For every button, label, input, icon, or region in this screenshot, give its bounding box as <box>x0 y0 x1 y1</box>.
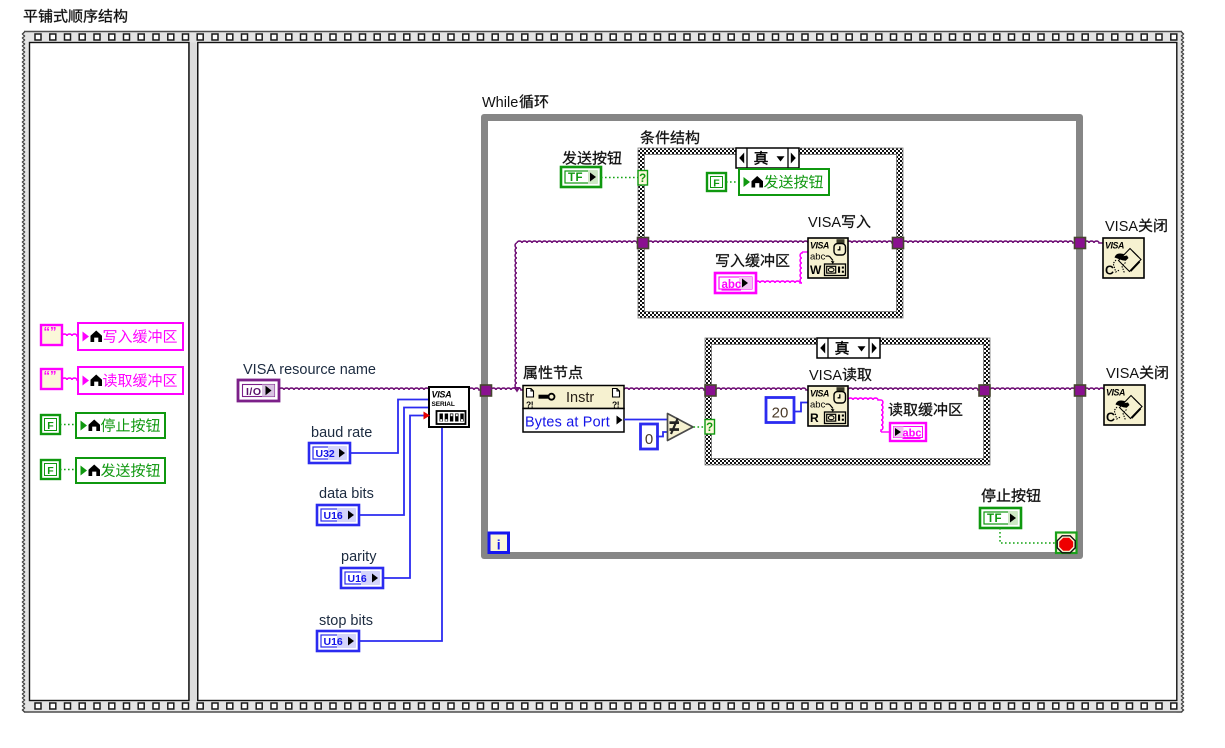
VISA Close node (upper) <box>1103 238 1144 278</box>
wire: baud rate (blue) <box>350 400 429 454</box>
label: VISA写入 <box>808 215 870 231</box>
iteration terminal i <box>489 533 509 553</box>
svg-text:?: ? <box>706 422 713 434</box>
wire: read buffer (pink wavy) VISA read → 读取缓冲区 <box>848 398 890 432</box>
label: 停止按钮 (terminal) <box>981 488 1040 502</box>
svg-text:I/O: I/O <box>246 386 262 398</box>
label: VISA关闭 (lower) <box>1106 365 1168 382</box>
wire: VISA resource branch up (wavy purple) + junction <box>514 241 639 392</box>
wire: VISA serial config to while loop (purple wavy) <box>469 388 481 390</box>
svg-text:R: R <box>810 411 819 425</box>
wire: 0 → not-equal (blue) <box>656 432 667 437</box>
loop condition terminal (stop sign) <box>1056 533 1077 554</box>
label: 属性节点 <box>523 365 582 379</box>
wire (pink string) <box>62 378 78 380</box>
svg-text:U32: U32 <box>316 448 335 460</box>
wire: Bytes at Port → not-equal (blue) <box>624 419 667 421</box>
wire: F → 发送按钮 local (dotted green) <box>726 181 739 183</box>
svg-text:abc: abc <box>810 252 826 263</box>
svg-text:“”: “” <box>44 324 57 339</box>
wire (boolean dotted) <box>60 424 76 426</box>
svg-text:U16: U16 <box>324 510 343 522</box>
wire: stop bits (blue) <box>359 427 442 641</box>
wire: parity (blue) <box>383 416 425 579</box>
svg-text:VISA: VISA <box>1105 241 1124 251</box>
svg-text:?!: ?! <box>526 400 534 410</box>
svg-text:VISA: VISA <box>1106 388 1125 398</box>
svg-text:VISA: VISA <box>809 368 842 384</box>
tunnel: case1 left (VISA) <box>638 238 649 249</box>
svg-text:data bits: data bits <box>319 486 374 502</box>
svg-text:SERIAL: SERIAL <box>432 401 455 408</box>
svg-text:U16: U16 <box>324 636 343 648</box>
local variable 停止按钮 <box>76 413 165 438</box>
VISA Configure Serial Port node <box>424 387 470 427</box>
label: 平铺式顺序结构 (flat sequence title) <box>24 9 127 23</box>
label: 读取缓冲区 <box>889 402 963 416</box>
label: 写入缓冲区 <box>716 253 789 267</box>
tunnel: while loop right upper (VISA) <box>1075 238 1086 249</box>
svg-text:W: W <box>810 263 822 277</box>
svg-text:Instr: Instr <box>566 390 594 406</box>
svg-text:F: F <box>47 420 54 432</box>
tunnel: case2 left (VISA) <box>705 385 716 396</box>
svg-text:0: 0 <box>645 431 653 448</box>
VISA Read node <box>808 386 848 426</box>
svg-text:?!: ?! <box>612 400 620 410</box>
wire: 停止按钮 → loop condition (dotted green) <box>1000 528 1056 543</box>
terminal TF 发送按钮 <box>561 167 601 187</box>
boolean constant F feeding 停止按钮 <box>41 415 60 434</box>
local variable 读取缓冲区 (indicator ▶abc) <box>890 423 926 441</box>
svg-text:stop bits: stop bits <box>319 613 373 629</box>
case structure 1 border <box>638 148 903 318</box>
svg-text:VISA: VISA <box>1106 366 1139 382</box>
label: data bits <box>319 486 374 502</box>
string constant (empty) feeding 写入缓冲区 <box>41 324 62 345</box>
wire: 20 → VISA read (blue) <box>794 403 808 412</box>
svg-text:VISA: VISA <box>808 215 841 231</box>
svg-text:U16: U16 <box>348 573 367 585</box>
case 2 selector ◀真▶ <box>817 338 880 358</box>
tunnel: while loop right lower (VISA) <box>1075 385 1086 396</box>
numeric constant 20 <box>766 398 794 423</box>
svg-text:TF: TF <box>568 172 583 184</box>
svg-text:20: 20 <box>772 405 789 422</box>
label: stop bits <box>319 613 373 629</box>
svg-text:abc: abc <box>903 428 922 440</box>
boolean constant F feeding 发送按钮 <box>41 460 60 479</box>
label: While循环 <box>482 94 548 111</box>
terminal abc 写入缓冲区 (string control) <box>715 273 756 293</box>
wire (pink string) <box>62 334 78 336</box>
svg-text:F: F <box>713 177 720 189</box>
local variable 写入缓冲区 <box>78 323 183 350</box>
svg-text:C: C <box>1105 264 1114 278</box>
terminal U32 baud rate <box>309 443 350 463</box>
svg-text:Bytes at Port: Bytes at Port <box>525 415 610 431</box>
svg-text:abc: abc <box>810 400 826 411</box>
tunnel: while loop left (VISA in) <box>481 385 492 396</box>
terminal U16 stop bits <box>317 631 359 651</box>
wire: VISA upper run through case 1 (wavy purple) <box>648 241 1103 243</box>
sequence frame 1 (left) <box>30 43 190 701</box>
svg-text:While: While <box>482 95 518 111</box>
terminal U16 parity <box>341 568 383 588</box>
I/O control (VISA resource name terminal) <box>238 380 279 401</box>
local variable 发送按钮 (in case 1) <box>739 169 829 195</box>
label: 条件结构 <box>641 130 700 144</box>
wire: VISA resource lower run (wavy purple) <box>491 388 1104 390</box>
frame divider <box>189 43 198 701</box>
case 2 selector terminal ? <box>705 420 715 435</box>
svg-text:TF: TF <box>987 513 1002 525</box>
tunnel: case2 right (VISA) <box>979 385 990 396</box>
svg-text:F: F <box>47 465 54 477</box>
label: baud rate <box>311 425 372 441</box>
VISA Close node (lower) <box>1104 385 1145 425</box>
wire: ≠ → case2 selector (dotted green) <box>694 426 706 428</box>
not-equal comparison node ≠ <box>668 414 694 441</box>
wire: 发送按钮 → case selector (dotted green) <box>601 177 638 179</box>
svg-text:i: i <box>497 537 501 553</box>
wire: write buffer (pink wavy) abc → VISA write <box>755 252 808 283</box>
boolean constant F (in case 1) <box>707 173 726 191</box>
terminal U16 data bits <box>317 505 359 525</box>
local variable 发送按钮 <box>76 458 165 483</box>
svg-text:VISA: VISA <box>810 241 829 251</box>
label: VISA关闭 (upper) <box>1105 218 1167 235</box>
case 1 selector ◀真▶ <box>736 148 799 168</box>
numeric constant 0 <box>641 424 658 449</box>
label: VISA resource name <box>243 362 376 378</box>
svg-text:VISA: VISA <box>810 389 829 399</box>
property node (Instr / Bytes at Port) <box>523 386 624 433</box>
svg-text:VISA: VISA <box>432 390 452 400</box>
svg-text:baud rate: baud rate <box>311 425 372 441</box>
While loop border <box>481 114 1083 559</box>
wire: VISA resource (purple wavy) I/O → VISA serial config <box>279 388 429 390</box>
label: parity <box>341 549 377 565</box>
VISA Write node <box>808 238 848 278</box>
svg-text:C: C <box>1106 411 1115 425</box>
terminal TF 停止按钮 <box>980 508 1021 528</box>
case selector terminal ? <box>638 171 648 186</box>
case structure 2 border <box>705 338 990 465</box>
string constant (empty) feeding 读取缓冲区 <box>41 368 62 389</box>
label: VISA读取 <box>809 367 872 384</box>
svg-text:abc: abc <box>722 279 742 291</box>
wire: data bits (blue) <box>359 408 429 516</box>
svg-text:VISA resource name: VISA resource name <box>243 362 376 378</box>
svg-text:parity: parity <box>341 549 377 565</box>
svg-text:?: ? <box>639 173 646 185</box>
local variable 读取缓冲区 <box>78 367 183 394</box>
svg-text:“”: “” <box>44 368 57 383</box>
tunnel: case1 right (VISA) <box>893 238 904 249</box>
wire (boolean dotted) <box>60 469 76 471</box>
svg-text:VISA: VISA <box>1105 219 1138 235</box>
label: 发送按钮 (terminal) <box>562 151 621 165</box>
sequence frame 2 (right) <box>198 43 1177 701</box>
